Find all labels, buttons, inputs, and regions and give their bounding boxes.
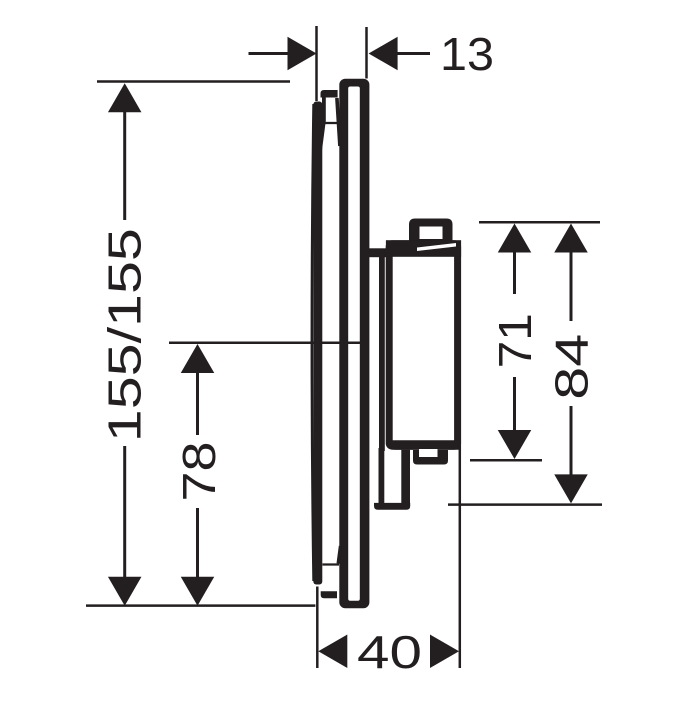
cartridge top band	[386, 240, 461, 257]
sleeve top band	[321, 90, 338, 98]
extension line middle horizontal	[169, 342, 366, 345]
cartridge bottom band	[389, 440, 459, 449]
dimension 71 top arrow	[498, 224, 532, 253]
extension line cartridge top right	[479, 221, 600, 224]
svg-text:71: 71	[489, 313, 541, 368]
lower stub bottom band	[374, 503, 410, 510]
cartridge top cap white interior	[420, 227, 443, 240]
dimension 84 top arrow	[554, 224, 588, 253]
dimension 84 bottom arrow	[554, 474, 588, 503]
dimension 71 shaft upper	[513, 251, 516, 295]
sleeve top-right cone slant	[337, 98, 340, 146]
cartridge body outline	[389, 244, 457, 446]
cartridge bottom cap	[413, 450, 448, 465]
dimension 78 top arrow	[181, 344, 215, 373]
dimension 71 shaft lower	[513, 377, 516, 431]
front plate face bulge	[312, 104, 314, 581]
dimension 40 left arrow	[318, 635, 347, 669]
cartridge top band chamfer highlight	[417, 243, 456, 251]
dimension 78 shaft lower	[196, 508, 199, 578]
wall plate inner white core	[348, 87, 360, 601]
extension line wall face	[365, 27, 368, 79]
dimension 71 bottom arrow	[498, 430, 532, 459]
sleeve top tick	[323, 122, 339, 124]
cartridge top cap body	[409, 219, 453, 249]
sleeve bottom-right cone slant	[338, 546, 340, 564]
front plate bar	[313, 102, 322, 585]
dimension 84 shaft lower	[570, 406, 573, 476]
dimension 13 right arrow	[369, 37, 398, 71]
svg-text:40: 40	[357, 626, 422, 678]
dimension 155/155 bottom arrow	[108, 577, 142, 606]
dimension 155/155 top arrow	[108, 83, 142, 112]
dimension 13 right tail	[396, 52, 430, 55]
wall plate outer body	[339, 79, 369, 609]
extension line bottom horizontal	[86, 604, 315, 607]
extension line 71 bottom	[470, 459, 542, 462]
flange between wall plate and cartridge	[368, 248, 394, 257]
svg-text:84: 84	[546, 334, 598, 400]
dimension 13 left tail	[249, 52, 290, 55]
lower stub left stroke	[379, 448, 385, 506]
extension line top horizontal	[97, 80, 290, 83]
dimension 78 bottom arrow	[181, 577, 215, 606]
sleeve bottom band	[321, 591, 337, 598]
svg-text:155/155: 155/155	[99, 228, 151, 442]
lower stub right stroke	[401, 450, 410, 506]
extension line 40 right vertical	[459, 443, 462, 668]
dimension 13 left arrow	[288, 37, 317, 71]
svg-text:13: 13	[440, 28, 494, 80]
svg-text:78: 78	[173, 442, 225, 502]
dimension 40 right arrow	[430, 635, 459, 669]
extension line 84 bottom	[448, 503, 602, 506]
extension line top-left of plate	[315, 26, 318, 101]
dimension 84 shaft upper	[570, 251, 573, 322]
extension line 40 left vertical	[316, 587, 319, 669]
supply pipe bar	[379, 255, 385, 451]
dimension 155/155 shaft lower	[123, 446, 126, 578]
dimension 155/155 shaft upper	[123, 110, 126, 220]
dimension 78 shaft upper	[196, 371, 199, 435]
sleeve bottom tick	[323, 563, 340, 565]
sleeve top-left stroke	[322, 98, 326, 151]
